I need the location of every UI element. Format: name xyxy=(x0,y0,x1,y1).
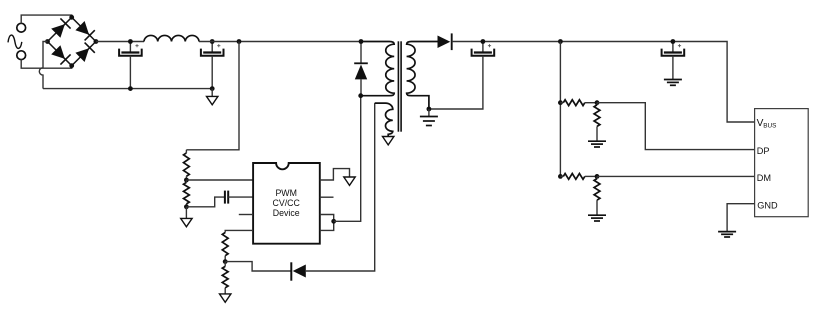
ground (primary, below C2) xyxy=(207,96,218,104)
resistor R3 xyxy=(222,233,228,256)
wire: rail stub to primary ground xyxy=(211,89,213,97)
wire: DM node to USB DM pin xyxy=(597,175,755,177)
wire: C5 left lead xyxy=(186,197,224,207)
capacitor C2 (bulk, polarized) xyxy=(201,42,224,56)
junction: C2 bottom xyxy=(210,86,215,91)
diode D1 (bridge left-top) xyxy=(51,18,70,37)
diode D5 (primary clamp) xyxy=(354,63,368,79)
junction: R2 bottom / C5 xyxy=(184,204,189,209)
junction: VBUS tap xyxy=(558,39,563,44)
wire: C1 to bottom rail xyxy=(129,56,131,89)
capacitor C1 (bulk, polarized) xyxy=(119,42,142,56)
wire: bottom terminal to bridge bottom vertex xyxy=(21,59,71,68)
wire: C5 right lead to U1 xyxy=(228,196,253,198)
wire: output rail xyxy=(452,42,755,123)
wire: DC bus down to R1 xyxy=(186,42,239,150)
junction: DC bus tap xyxy=(237,39,242,44)
wire: top terminal to bridge top vertex xyxy=(21,15,71,24)
terminal (neutral, bottom) xyxy=(17,51,26,60)
junction: C4 top xyxy=(671,39,676,44)
junction: secondary return xyxy=(427,107,432,112)
junction: R7 node xyxy=(558,174,563,179)
J1 pin label VBUS xyxy=(757,118,777,130)
ground (USB GND) xyxy=(718,232,736,237)
AC source V1 (sine symbol) xyxy=(8,35,22,48)
diode D2 (bridge top-right) xyxy=(75,21,94,40)
junction: bridge bottom vertex xyxy=(69,63,74,68)
junction: DP divider node xyxy=(595,100,600,105)
resistor R7 xyxy=(560,175,563,177)
ground (below R8) xyxy=(588,215,606,221)
junction: DC bus / transformer xyxy=(359,39,364,44)
terminal (line, top) xyxy=(17,23,26,32)
wire: U1 pin to R3 chain xyxy=(225,230,253,232)
resistor R4 xyxy=(224,262,226,267)
wire: U1 drain pins joined xyxy=(320,215,334,231)
junction: R3/R4 feedback node xyxy=(223,259,228,264)
inductor L1 (pi filter) xyxy=(144,35,199,41)
resistor R2 xyxy=(185,180,187,182)
capacitor C5 xyxy=(225,191,228,204)
svg-text:Device: Device xyxy=(273,208,300,218)
wire: divider feed xyxy=(559,42,561,177)
junction: drain pin xyxy=(331,219,336,224)
diode D3 (bridge left-bottom) xyxy=(51,45,70,64)
junction: bridge left vertex xyxy=(45,39,50,44)
diode D6 (feedback) xyxy=(291,262,306,280)
resistor R6 xyxy=(596,103,598,105)
wire: DC bus L1 to transformer xyxy=(199,41,361,43)
ground (below R6) xyxy=(588,141,606,147)
resistor R1 xyxy=(185,150,187,153)
pin stub: U1 left NC xyxy=(239,214,253,216)
wire: secondary return to ground xyxy=(428,109,430,117)
transformer T1 bias winding xyxy=(375,103,393,136)
IC U1 PWM CV/CC Device (body with notch) xyxy=(253,163,320,244)
svg-text:GND: GND xyxy=(757,200,778,210)
transformer T1 secondary winding xyxy=(407,42,438,110)
wire: primary bottom rail xyxy=(43,88,212,90)
ground (secondary return) xyxy=(420,117,438,126)
junction: bridge right vertex xyxy=(94,39,99,44)
USB connector J1 (body) xyxy=(755,109,809,217)
wire: clamp diode top lead xyxy=(360,42,362,64)
ground (below C4) xyxy=(664,80,682,86)
junction: R1/R2 xyxy=(184,178,189,183)
ground (below R2) xyxy=(181,218,192,226)
transformer T1 primary winding xyxy=(361,42,395,96)
junction: R5 node xyxy=(558,100,563,105)
wire: C3 bottom to secondary return xyxy=(429,56,483,109)
wire: feedback node to D6 cathode xyxy=(225,262,291,271)
wire: bridge output to C1 xyxy=(96,41,144,43)
svg-text:BUS: BUS xyxy=(763,122,776,129)
wire: bridge negative to bottom rail (with crossover hop) xyxy=(39,42,47,89)
junction: C3 top xyxy=(481,39,486,44)
wire: D6 anode to bias winding xyxy=(306,103,375,271)
svg-text:DP: DP xyxy=(757,146,770,156)
U1 label text xyxy=(273,188,301,218)
wire: C4 to ground xyxy=(672,56,674,80)
junction: C1 bottom xyxy=(128,86,133,91)
ground (below R4) xyxy=(220,294,231,302)
resistor R8 xyxy=(596,176,598,178)
transformer T1 core xyxy=(398,41,401,131)
resistor R5 xyxy=(560,102,563,104)
ground (U1 bypass) xyxy=(344,177,355,185)
junction: DM divider node xyxy=(595,174,600,179)
wire: U1 bypass pin to ground xyxy=(320,169,350,180)
pin stub: U1 right NC xyxy=(320,196,334,198)
capacitor C4 (USB rail, polarized) xyxy=(662,42,685,56)
junction: C2 top xyxy=(210,39,215,44)
bridge edge wires xyxy=(48,17,96,65)
wire: R1-R2 node to U1 pin xyxy=(186,179,253,181)
svg-text:PWM: PWM xyxy=(275,188,297,198)
junction: C1 top xyxy=(128,39,133,44)
capacitor C3 (output, polarized) xyxy=(472,42,495,56)
wire: DP node to USB DP pin xyxy=(597,103,755,150)
diode D7 (output rectifier) xyxy=(438,33,452,50)
ground (bias winding) xyxy=(383,137,394,145)
diode D4 (bridge bottom-right) xyxy=(75,43,94,62)
wire: C2 to bottom rail xyxy=(211,56,213,89)
svg-text:CV/CC: CV/CC xyxy=(273,198,301,208)
wire: USB GND pin to ground xyxy=(727,204,755,232)
wire: drain pin to transformer primary xyxy=(334,96,361,222)
junction: bridge top vertex xyxy=(69,15,74,20)
wire: clamp diode bottom lead xyxy=(360,79,362,95)
svg-text:DM: DM xyxy=(757,173,771,183)
wire: R2 bottom to ground xyxy=(185,207,187,219)
junction: primary bottom / drain xyxy=(358,93,363,98)
